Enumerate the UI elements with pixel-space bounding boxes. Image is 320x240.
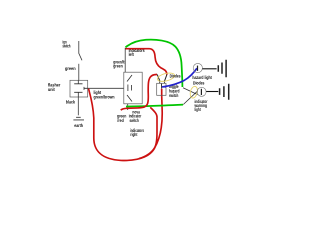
svg-text:light: light [195,107,202,112]
toggle hazard switch box [157,83,166,95]
svg-text:/red: /red [117,118,124,123]
earth symbol [73,117,84,120]
yellow ellipse around diodes [157,71,176,82]
svg-text:right: right [130,132,137,137]
bottom stub [127,104,129,110]
blue wire toggle to hazard light [162,68,197,87]
svg-text:Diodes: Diodes [170,73,182,78]
wire ign switch to flasher unit [78,64,80,81]
green wire G1: indicators-left arc to right side [126,40,183,87]
hazard light wire [202,68,216,70]
flasher right terminal [84,87,88,90]
toggle inner post [161,84,163,89]
wire flasher to indicator switch [88,87,124,89]
hazard feed bars [218,60,226,77]
svg-text:black: black [66,100,76,105]
toggle inner blue tick [162,86,166,88]
toggle top stubs [160,80,165,83]
wire flasher to earth [77,97,79,115]
diode wires [157,74,167,80]
svg-text:switch: switch [130,118,140,123]
svg-text:earth: earth [74,123,83,128]
svg-text:Diodes: Diodes [193,81,205,86]
warning feed bars [220,84,229,100]
contact ticks [128,85,132,92]
flasher bottom terminal [74,92,82,97]
red wire R2: switch bottom pair up to toggle diode [121,74,157,110]
svg-text:green: green [113,64,123,69]
green wire G2: switch bottom to warning light [126,105,183,107]
flasher unit box [70,80,88,97]
indicator warning light lamp [197,87,206,96]
flasher top terminal [74,80,82,84]
hazard light lamp [193,63,202,72]
svg-text:hazard light: hazard light [192,75,212,80]
red wire loop (feed to indicators right, big U) [89,89,158,161]
svg-text:switch: switch [169,93,179,98]
svg-text:green: green [65,66,76,71]
svg-text:unit: unit [48,87,55,92]
svg-text:green/brown: green/brown [94,95,115,100]
red wire R1: indicators-left to toggle diode [126,49,167,75]
warning light wire [206,91,218,93]
wire indicators-left down to switch box [124,48,126,72]
yellow ellipse around warning diodes [189,86,199,99]
wire green2 to warning light [183,91,198,105]
ign switch (open switch symbol) [79,41,82,60]
red wire from toggle switch down to loop [139,89,162,159]
svg-text:left: left [129,52,135,57]
svg-text:switch: switch [63,43,71,48]
switch blade top [127,75,132,82]
nova indicator switch box [124,72,142,104]
switch blade bottom [127,95,132,102]
wire green1 to warning light [183,88,198,95]
